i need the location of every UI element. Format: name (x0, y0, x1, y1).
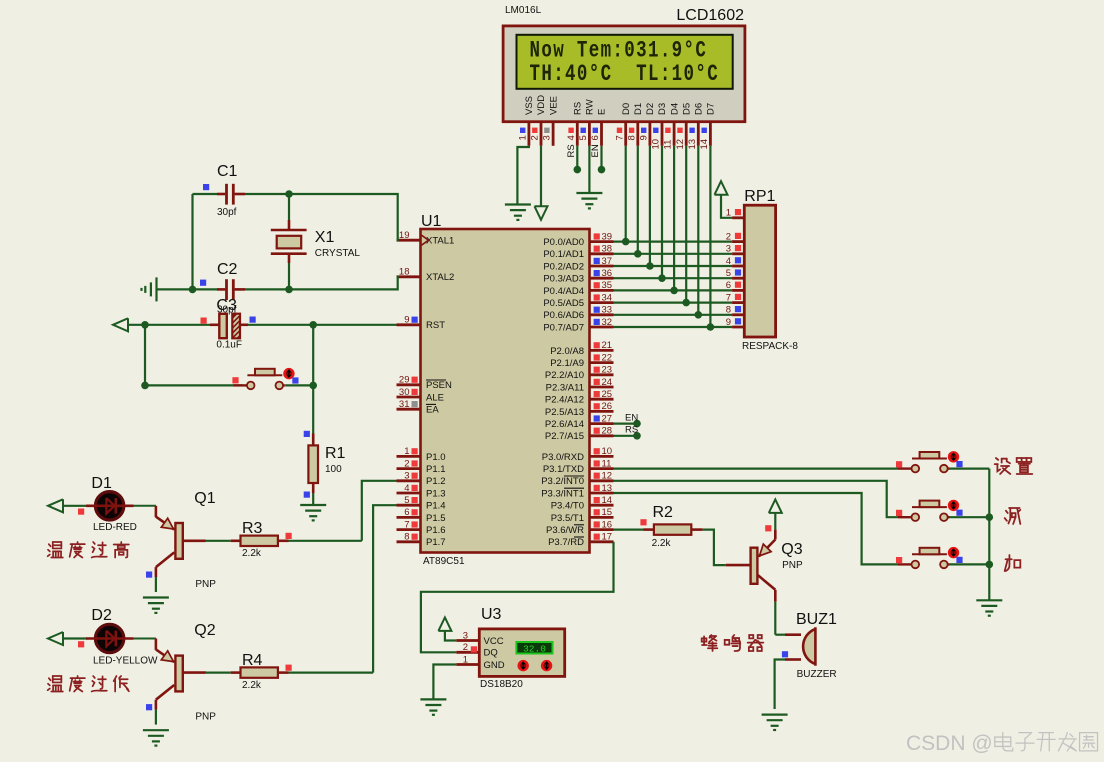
svg-text:9: 9 (726, 317, 731, 328)
U1 pin 36 P0.3/AD3 (590, 277, 614, 280)
svg-text:6: 6 (726, 280, 731, 291)
state square R1 bottom (304, 492, 310, 498)
svg-text:13: 13 (687, 139, 698, 150)
state square R3 (286, 533, 292, 539)
svg-text:4: 4 (404, 483, 409, 494)
RP1 pin 5 (732, 277, 744, 280)
svg-text:RS: RS (573, 102, 584, 115)
U1 pin 28 P2.7/A15 (590, 434, 614, 437)
transistor Q3 body bar (751, 548, 758, 584)
svg-text:Q3: Q3 (781, 541, 802, 558)
wire P0.4 to RP1 (614, 289, 733, 291)
svg-text:6: 6 (590, 135, 601, 140)
svg-text:32: 32 (602, 317, 613, 328)
svg-text:D1: D1 (91, 475, 112, 492)
U3 button up (542, 661, 551, 670)
ground (Q2) (143, 729, 169, 731)
svg-text:37: 37 (602, 256, 613, 267)
output terminal arrow (D1) (48, 499, 63, 512)
wire P0.0 to RP1 (614, 241, 733, 243)
svg-text:P0.3/AD3: P0.3/AD3 (543, 274, 584, 285)
junction D4/P0.4 (670, 287, 678, 295)
wire arrow to D1 (63, 505, 87, 507)
state square R4 (286, 665, 292, 671)
svg-text:12: 12 (602, 471, 613, 482)
junction X1/C2 (285, 286, 293, 294)
svg-text:38: 38 (602, 244, 613, 255)
node EN (LCD side) (598, 166, 606, 174)
LCD pin 10 (D3) (661, 122, 664, 146)
LCD pin 1 (VSS) (528, 122, 531, 146)
wire RST branch down-left (145, 325, 243, 386)
U1 pin 34 P0.5/AD5 (590, 301, 614, 304)
svg-text:P1.7: P1.7 (426, 537, 446, 548)
U1 pin 17 P3.7/RD (590, 540, 614, 543)
U3 pin 3 VCC (456, 639, 479, 642)
svg-text:7: 7 (404, 519, 409, 530)
svg-text:P1.0: P1.0 (426, 452, 446, 463)
LCD pin 7 (D0) (624, 122, 627, 146)
wire C3 right to RST pin (239, 323, 248, 326)
push button PLUS (898, 563, 912, 565)
LED D2 (95, 624, 123, 652)
svg-text:2: 2 (404, 458, 409, 469)
svg-text:5: 5 (404, 495, 409, 506)
wire R1 bottom (312, 483, 315, 493)
svg-text:BUZZER: BUZZER (797, 669, 837, 680)
svg-text:30: 30 (399, 387, 410, 398)
svg-text:ALE: ALE (426, 392, 444, 403)
svg-text:RS: RS (566, 144, 577, 157)
U1 pin 32 P0.7/AD7 (590, 326, 614, 329)
svg-text:3: 3 (463, 630, 468, 641)
svg-text:11: 11 (602, 458, 612, 469)
svg-text:34: 34 (602, 292, 613, 303)
wire P0.5 to RP1 (614, 302, 733, 304)
svg-text:P3.7/RD: P3.7/RD (548, 537, 584, 548)
svg-text:8: 8 (726, 305, 731, 316)
state square buzzer (782, 651, 788, 657)
Q2 base wire (183, 671, 206, 674)
U1 pin 31 EA (397, 408, 421, 411)
svg-text:VEE: VEE (548, 96, 559, 115)
LED D1 (95, 492, 123, 520)
LCD pin 9 (D2) (649, 122, 652, 146)
svg-text:P3.4/T0: P3.4/T0 (551, 501, 584, 512)
svg-text:P3.1/TXD: P3.1/TXD (543, 464, 584, 475)
junction D6/P0.6 (695, 311, 703, 319)
svg-text:P0.5/AD5: P0.5/AD5 (543, 298, 584, 309)
junction RST left (141, 321, 149, 329)
transistor Q2 body bar (175, 656, 182, 692)
ground (buzzer) (762, 713, 788, 715)
wire X1 top (288, 196, 290, 220)
svg-text:VCC: VCC (484, 636, 504, 647)
wire D6 vertical (697, 146, 699, 315)
wire power to RP1 pin1 (721, 195, 732, 218)
svg-text:RST: RST (426, 320, 445, 331)
U1 pin 29 PSEN (397, 383, 421, 386)
svg-text:BUZ1: BUZ1 (796, 611, 837, 628)
junction left of reset button (141, 382, 149, 390)
Q1 emitter (155, 506, 158, 517)
wire D4 vertical (673, 146, 675, 291)
wire P0.6 to RP1 (614, 314, 733, 316)
ground (buttons) (976, 599, 1002, 601)
svg-text:36: 36 (602, 268, 613, 279)
temperature sensor U3 DS18B20 body (479, 629, 564, 677)
svg-text:14: 14 (602, 495, 613, 506)
svg-text:P2.2/A10: P2.2/A10 (545, 370, 584, 381)
svg-text:10: 10 (651, 139, 662, 150)
svg-text:X1: X1 (315, 229, 335, 246)
LCD pin 2 (VDD) (540, 122, 543, 146)
svg-text:32.0: 32.0 (523, 644, 546, 655)
svg-text:25: 25 (602, 389, 613, 400)
svg-text:12: 12 (675, 139, 686, 150)
junction D0/P0.0 (622, 238, 630, 246)
push button (reset) (233, 384, 247, 386)
Q1 collector (156, 552, 174, 567)
svg-text:P0.7/AD7: P0.7/AD7 (543, 322, 584, 333)
svg-text:0.1uF: 0.1uF (216, 340, 242, 351)
svg-text:P2.3/A11: P2.3/A11 (546, 382, 584, 393)
svg-text:27: 27 (602, 413, 613, 424)
U1 pin 1 P1.0 (397, 455, 421, 458)
RP1 pin 6 (732, 289, 744, 292)
wire VDD down (540, 146, 542, 207)
state square D2 (78, 641, 84, 647)
junction D2/P0.2 (646, 262, 654, 270)
svg-text:7: 7 (614, 135, 625, 140)
state square R1 top (304, 431, 310, 437)
U3 pin 1 GND (456, 663, 479, 666)
U1 pin 18 XTAL2 (397, 275, 421, 278)
U1 pin 30 ALE (397, 396, 421, 399)
svg-text:21: 21 (602, 340, 613, 351)
U1 pin 2 P1.1 (397, 467, 421, 470)
wire RS from LCD (576, 146, 578, 170)
U1 pin 24 P2.3/A11 (590, 386, 614, 389)
svg-text:8: 8 (626, 135, 637, 140)
LCD pin 4 (RS) (576, 122, 579, 146)
wire D2 to Q2 emitter (133, 638, 156, 640)
BUZ1 top stub (775, 634, 785, 636)
chinese label: buzzer (feng ming qi) (702, 635, 718, 651)
wire X1 bottom (288, 254, 291, 263)
svg-text:P1.5: P1.5 (426, 513, 446, 524)
svg-text:33: 33 (602, 305, 613, 316)
junction C1/X1 top (285, 190, 293, 198)
svg-text:31: 31 (399, 399, 410, 410)
ground (Q1) (143, 596, 169, 598)
power terminal down (VDD) (535, 206, 548, 220)
U1 pin 3 P1.2 (397, 479, 421, 482)
resistor R3 (231, 539, 241, 542)
wire P3.1 to button SET (614, 468, 899, 470)
ground (RW) (576, 192, 602, 194)
svg-text:R3: R3 (242, 520, 263, 537)
chinese label: plus (jia) (1005, 555, 1021, 571)
svg-text:2: 2 (726, 231, 731, 242)
U1 pin 33 P0.6/AD6 (590, 313, 614, 316)
svg-text:AT89C51: AT89C51 (423, 556, 465, 567)
svg-text:30pf: 30pf (217, 305, 237, 316)
svg-text:30pf: 30pf (217, 207, 237, 218)
wire P3.7 to DS18B20 DQ (421, 542, 614, 653)
svg-text:1: 1 (463, 654, 468, 665)
push button MINUS (898, 516, 912, 518)
svg-text:R1: R1 (325, 445, 346, 462)
ground (R1) (300, 504, 326, 506)
svg-text:8: 8 (404, 532, 409, 543)
U1 pin 5 P1.4 (397, 504, 421, 507)
svg-text:U3: U3 (481, 606, 502, 623)
svg-text:17: 17 (602, 532, 613, 543)
LCD pin 13 (D6) (697, 122, 700, 146)
Q3 emitter wire up (774, 530, 777, 540)
wire button junction to R1 (312, 385, 314, 433)
label RS at LCD pin 4 (566, 144, 577, 157)
chinese label: set (she zhi) (995, 458, 1011, 474)
svg-text:P1.2: P1.2 (426, 476, 446, 487)
svg-text:3: 3 (404, 471, 409, 482)
wire R2 to Q3 base (691, 528, 702, 531)
Q1 base wire (183, 539, 206, 542)
chinese label: minus (jian) (1005, 508, 1021, 524)
state square Q2 collector (146, 704, 152, 710)
svg-text:P0.4/AD4: P0.4/AD4 (543, 286, 584, 297)
capacitor C3 (polarized) (219, 314, 227, 338)
watermark chinese (dian zi kai fa quan) (995, 733, 1013, 751)
wire button SET to bus (950, 468, 990, 470)
svg-text:LED-YELLOW: LED-YELLOW (93, 656, 158, 667)
svg-text:EN: EN (590, 144, 601, 157)
junction RST/R1 branch (309, 321, 317, 329)
buzzer BUZ1 symbol (803, 627, 815, 666)
power terminal up (Q3) (769, 499, 782, 513)
LCD pin 3 (VEE) (552, 122, 555, 146)
svg-text:Q2: Q2 (194, 622, 215, 639)
wire C1 right (235, 193, 245, 196)
RP1 pin 3 (732, 252, 744, 255)
ground (left of C2) (155, 277, 157, 301)
resistor pack RP1 body (744, 205, 775, 337)
wire ground to C2 (157, 288, 218, 290)
svg-text:10: 10 (602, 446, 613, 457)
wire C1 top net (193, 193, 218, 195)
wire P0.2 to RP1 (614, 265, 733, 267)
svg-text:XTAL1: XTAL1 (426, 236, 454, 247)
transistor Q1 body bar (175, 523, 182, 559)
svg-text:GND: GND (484, 660, 505, 671)
resistor R1 (308, 445, 318, 483)
svg-text:D7: D7 (706, 103, 717, 115)
wire D1 vertical (637, 146, 639, 254)
svg-text:23: 23 (602, 365, 613, 376)
U1 pin 11 P3.1/TXD (590, 467, 614, 470)
svg-text:P3.2/INT0: P3.2/INT0 (541, 476, 584, 487)
crystal X1 (271, 229, 307, 232)
wire R4 to P1.4 corner (289, 671, 374, 673)
svg-text:D1: D1 (633, 103, 644, 115)
resistor R2 (654, 524, 691, 534)
state square SET left (896, 461, 902, 467)
svg-text:DQ: DQ (484, 648, 498, 659)
svg-text:15: 15 (602, 507, 613, 518)
wire P3.3 to button PLUS (614, 493, 899, 564)
svg-text:28: 28 (602, 426, 613, 437)
U1 pin 16 P3.6/WR (590, 528, 614, 531)
state square U3 DQ (471, 646, 477, 652)
U1 pin 38 P0.1/AD1 (590, 252, 614, 255)
wire P0.3 to RP1 (614, 277, 733, 279)
svg-text:P1.3: P1.3 (426, 488, 446, 499)
push button SET (898, 467, 912, 469)
state square C3 right (250, 317, 256, 323)
wire D0 vertical (625, 146, 627, 242)
svg-text:Now Tem:031.9°C: Now Tem:031.9°C (530, 38, 708, 64)
wire EN (P2.6) (614, 423, 638, 425)
wire R3 to P1.2 corner (289, 540, 362, 542)
power terminal up (RP1) (715, 181, 728, 195)
svg-text:100: 100 (325, 464, 342, 475)
LCD pin 8 (D1) (636, 122, 639, 146)
svg-text:2.2k: 2.2k (242, 680, 262, 691)
RP1 pin 2 (732, 240, 744, 243)
node EN (633, 420, 641, 428)
U1 pin 8 P1.7 (397, 540, 421, 543)
svg-text:14: 14 (699, 139, 710, 150)
svg-text:2: 2 (530, 135, 541, 140)
node RS (633, 432, 641, 440)
LCD pin 12 (D5) (685, 122, 688, 146)
wire to C3 left (145, 324, 210, 326)
svg-text:PNP: PNP (195, 712, 216, 723)
svg-text:P0.0/AD0: P0.0/AD0 (543, 237, 584, 248)
svg-text:P0.6/AD6: P0.6/AD6 (543, 310, 584, 321)
wire button PLUS to bus (950, 563, 990, 565)
svg-text:P0.2/AD2: P0.2/AD2 (543, 261, 584, 272)
svg-text:2: 2 (463, 642, 468, 653)
U3 display (516, 642, 552, 654)
wire arrow to C3 (128, 324, 145, 326)
U1 pin 23 P2.2/A10 (590, 373, 614, 376)
ground (VSS) (505, 203, 531, 205)
svg-text:RS: RS (625, 425, 638, 436)
svg-text:18: 18 (399, 267, 410, 278)
svg-text:D5: D5 (681, 103, 692, 115)
svg-text:P3.0/RXD: P3.0/RXD (542, 452, 584, 463)
svg-text:EA: EA (426, 405, 439, 416)
Q2 collector (156, 685, 174, 700)
svg-text:4: 4 (566, 135, 577, 140)
svg-text:C1: C1 (217, 163, 238, 180)
svg-text:3: 3 (542, 135, 553, 140)
svg-text:PNP: PNP (782, 560, 803, 571)
wire D7 vertical (709, 146, 711, 327)
svg-text:CSDN @: CSDN @ (906, 732, 993, 755)
svg-text:P1.6: P1.6 (426, 525, 446, 536)
svg-text:24: 24 (602, 377, 613, 388)
wire top to XTAL1 (289, 194, 398, 240)
svg-text:22: 22 (602, 352, 613, 363)
U1 pin 39 P0.0/AD0 (590, 240, 614, 243)
svg-text:5: 5 (578, 135, 589, 140)
svg-text:PNP: PNP (195, 579, 216, 590)
wire GND to ground (433, 665, 456, 700)
svg-text:16: 16 (602, 519, 613, 530)
U1 pin 6 P1.5 (397, 516, 421, 519)
wire D5 vertical (685, 146, 687, 303)
chinese label: temperature too high (wen du guo gao) (48, 542, 63, 558)
svg-text:Q1: Q1 (194, 490, 215, 507)
wire power to VCC (445, 631, 456, 641)
svg-text:P2.6/A14: P2.6/A14 (545, 419, 584, 430)
svg-text:D3: D3 (657, 103, 668, 115)
U1 pin 27 P2.6/A14 (590, 422, 614, 425)
svg-text:1: 1 (404, 446, 409, 457)
input terminal arrow (RST line) (113, 318, 128, 331)
svg-text:LCD1602: LCD1602 (676, 7, 744, 24)
wire D2 vertical (649, 146, 651, 266)
wire Q3 to buzzer (774, 602, 776, 635)
power terminal up (U3) (438, 617, 451, 631)
U1 pin 10 P3.0/RXD (590, 455, 614, 458)
svg-text:PSEN: PSEN (426, 380, 452, 391)
svg-text:P0.1/AD1: P0.1/AD1 (543, 249, 584, 260)
svg-text:R4: R4 (242, 652, 263, 669)
state square SET right (956, 461, 962, 467)
U1 pin 35 P0.4/AD4 (590, 289, 614, 292)
svg-text:U1: U1 (421, 213, 442, 230)
Q3 collector (758, 575, 775, 590)
svg-text:P2.4/A12: P2.4/A12 (545, 395, 584, 406)
svg-text:P2.1/A9: P2.1/A9 (550, 358, 584, 369)
LCD pin 6 (E) (600, 122, 603, 146)
junction bus/MINUS (986, 513, 994, 521)
Q2 emitter (155, 639, 158, 650)
svg-text:6: 6 (404, 507, 409, 518)
svg-text:RP1: RP1 (744, 188, 775, 205)
LCD pin 5 (RW) (588, 122, 591, 146)
svg-text:EN: EN (625, 412, 638, 423)
svg-text:P1.1: P1.1 (426, 464, 446, 475)
wire P1.2 to R3 net (362, 481, 397, 541)
junction D7/P0.7 (707, 323, 715, 331)
wire arrow to D2 (63, 637, 87, 639)
state square Q1 collector (146, 572, 152, 578)
svg-text:RESPACK-8: RESPACK-8 (742, 341, 798, 352)
svg-text:D6: D6 (694, 103, 705, 115)
svg-text:DS18B20: DS18B20 (480, 679, 523, 690)
svg-text:P3.5/T1: P3.5/T1 (551, 513, 584, 524)
output terminal arrow (D2) (48, 632, 63, 645)
RP1 pin 8 (732, 313, 744, 316)
wire button MINUS to bus (950, 516, 990, 518)
RP1 pin 1 (732, 216, 744, 219)
svg-text:2.2k: 2.2k (652, 538, 672, 549)
RP1 pin 4 (732, 265, 744, 268)
U3 pin 2 DQ (456, 651, 479, 654)
state square MINUS right (956, 510, 962, 516)
resistor R4 (231, 671, 241, 674)
U1 pin 15 P3.5/T1 (590, 516, 614, 519)
ground (U3) (420, 698, 446, 700)
U1 pin 37 P0.2/AD2 (590, 265, 614, 268)
svg-text:C2: C2 (217, 261, 238, 278)
svg-text:9: 9 (639, 135, 650, 140)
